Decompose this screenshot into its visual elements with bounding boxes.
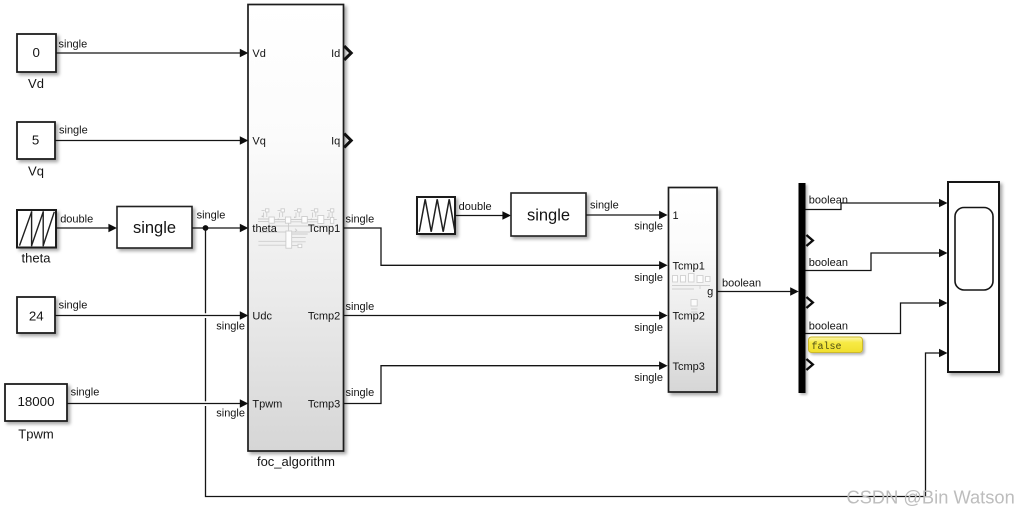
svg-text:Tcmp1: Tcmp1 [673,261,705,273]
svg-text:theta: theta [252,223,277,235]
svg-text:single: single [346,213,375,225]
demux output wire 3 to scope port 3 [806,299,948,334]
wire Tcmp3 to gate subsystem [344,361,668,403]
wire Vq to foc_algorithm [55,136,248,145]
svg-text:single: single [634,372,663,384]
svg-text:single: single [216,407,245,419]
unconnected output port Id [344,46,351,60]
svg-text:boolean: boolean [809,195,848,207]
demux unconnected port chevron 2 [806,235,812,246]
data type conversion block single (DTC1) [117,207,192,249]
svg-text:single: single [346,301,375,313]
svg-text:single: single [216,320,245,332]
svg-text:Tcmp3: Tcmp3 [673,361,705,373]
svg-text:single: single [346,387,375,399]
svg-text:Tcmp1: Tcmp1 [308,223,340,235]
svg-text:Vq: Vq [252,136,265,148]
svg-text:boolean: boolean [722,277,761,289]
svg-text:Tpwm: Tpwm [18,426,53,441]
svg-text:5: 5 [32,132,39,147]
value tag false [809,337,863,353]
mux/demux bar [799,183,806,393]
svg-text:single: single [133,219,176,237]
svg-text:boolean: boolean [809,257,848,269]
svg-text:Vd: Vd [28,76,44,91]
svg-text:Iq: Iq [331,136,340,148]
svg-text:boolean: boolean [809,320,848,332]
svg-text:24: 24 [29,308,44,323]
svg-text:single: single [527,206,570,224]
svg-text:single: single [634,272,663,284]
constant block Tpwm value 18000 [5,384,67,421]
constant block Vd value 0 [17,34,56,72]
wire Tcmp2 to gate subsystem [344,311,668,320]
unconnected output port Iq [344,134,351,148]
svg-text:Tcmp2: Tcmp2 [673,311,705,323]
foc_algorithm contents preview [258,209,337,248]
svg-text:g: g [707,286,713,298]
demux output wire 2 to scope port 2 [806,249,948,271]
svg-text:Id: Id [331,48,340,60]
wire DTC2 to gate subsystem port 1 [586,211,668,220]
svg-text:single: single [59,125,88,137]
svg-text:1: 1 [673,210,679,222]
data type conversion block single (DTC2) [511,193,586,236]
svg-text:Tcmp3: Tcmp3 [308,399,340,411]
demux unconnected port chevron 6 [806,359,812,370]
svg-text:single: single [59,299,88,311]
junction node on theta signal [203,225,209,231]
svg-text:CSDN @Bin Watson: CSDN @Bin Watson [847,487,1015,508]
svg-text:single: single [634,221,663,233]
svg-text:double: double [459,201,492,213]
constant block Vq value 5 [17,122,55,159]
gate subsystem (inputs 1, Tcmp1..3, output g) [669,188,718,393]
svg-text:Tpwm: Tpwm [252,399,282,411]
constant block Udc value 24 [17,297,55,333]
demux output wire 1 to scope port 1 [806,199,948,210]
wire Udc to foc_algorithm [55,311,248,320]
svg-text:single: single [59,38,88,50]
demux unconnected port chevron 4 [806,297,812,308]
wire Vd to foc_algorithm [56,49,248,58]
svg-text:false: false [812,341,842,353]
svg-text:18000: 18000 [18,394,55,409]
svg-text:single: single [590,200,619,212]
svg-text:single: single [634,322,663,334]
svg-text:Udc: Udc [252,311,272,323]
svg-text:Tcmp2: Tcmp2 [308,311,340,323]
svg-text:single: single [197,210,226,222]
wire Tcmp1 to gate subsystem [344,228,668,270]
svg-text:foc_algorithm: foc_algorithm [257,454,335,469]
svg-text:Vd: Vd [252,48,265,60]
wire theta to data type conversion 1 [56,224,117,233]
wire DTC1 to foc_algorithm theta port [192,224,248,233]
signal generator triangle wave [417,197,455,234]
svg-text:Vq: Vq [28,163,44,178]
wire triangle wave to data type conversion 2 [455,211,511,220]
svg-text:0: 0 [32,45,39,60]
wire gate g output to mux [718,287,799,296]
wire Tpwm to foc_algorithm [67,399,248,408]
wire theta branch to scope port 4 [206,228,948,497]
signal generator theta (sawtooth icon) [17,210,56,248]
gate subsystem contents preview [672,274,710,313]
svg-text:single: single [71,387,100,399]
scope block [948,182,999,372]
svg-text:double: double [60,213,93,225]
subsystem foc_algorithm [248,5,344,452]
svg-text:theta: theta [22,251,52,266]
